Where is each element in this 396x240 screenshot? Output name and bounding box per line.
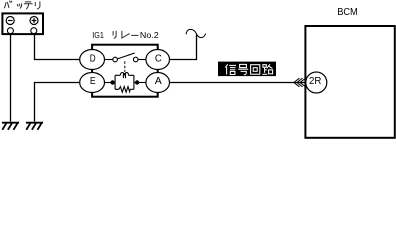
svg-text:A: A [155, 76, 162, 87]
relay pin A [146, 73, 170, 93]
svg-text:IG1: IG1 [92, 30, 104, 40]
mechanical link dashed line [124, 61, 126, 72]
relay pin D [80, 50, 105, 70]
ground G2 [26, 123, 43, 130]
signal circuit label (black box, white kanji) [218, 62, 276, 77]
wire: pin A to BCM (signal circuit) [169, 82, 305, 84]
connector chevrons at BCM [294, 78, 306, 87]
node junction dot left [110, 80, 114, 84]
wire: battery minus to ground G1 [10, 34, 12, 122]
battery minus terminal symbol [6, 17, 14, 25]
relay contact blade (open) [117, 53, 134, 59]
wire: battery plus to relay pin D [35, 34, 81, 60]
svg-text:D: D [90, 53, 96, 64]
svg-text:E: E [90, 76, 96, 87]
relay coil (with core ticks) [120, 73, 128, 79]
wire: contact to pin C [138, 59, 146, 61]
battery label (katakana "batteri" drawn as paths) [4, 1, 40, 9]
relay contact fixed point right [133, 57, 138, 62]
coil branch frame (parallel paths) [113, 75, 138, 89]
off-page continuation wavy symbol [186, 29, 206, 37]
node junction dot right [135, 80, 139, 84]
relay pin C [146, 50, 170, 70]
svg-text:C: C [155, 53, 162, 64]
BCM terminal 2R [306, 72, 327, 93]
battery minus post [7, 28, 13, 34]
relay contact fixed point left [113, 57, 118, 62]
BCM box [305, 26, 394, 138]
wire: pin E to coil node [104, 82, 112, 84]
battery plus terminal symbol [30, 17, 38, 25]
svg-text:2R: 2R [309, 76, 321, 87]
battery BT1 box [2, 13, 43, 34]
battery plus post [31, 28, 37, 34]
svg-text:No.2: No.2 [140, 30, 159, 40]
resistor (parallel with coil) [119, 87, 130, 93]
wire: pin C to off-page continuation [169, 35, 196, 60]
wire: coil node to pin A [137, 82, 146, 84]
relay K1 label "IG1 relay No.2" [92, 30, 159, 40]
relay pin E [80, 73, 105, 93]
wire: pin D to contact [104, 59, 112, 61]
relay K1 body box [92, 45, 158, 97]
ground G1 [2, 123, 19, 130]
wire: relay pin E to ground G2 [35, 83, 81, 122]
svg-text:BCM: BCM [337, 7, 358, 18]
